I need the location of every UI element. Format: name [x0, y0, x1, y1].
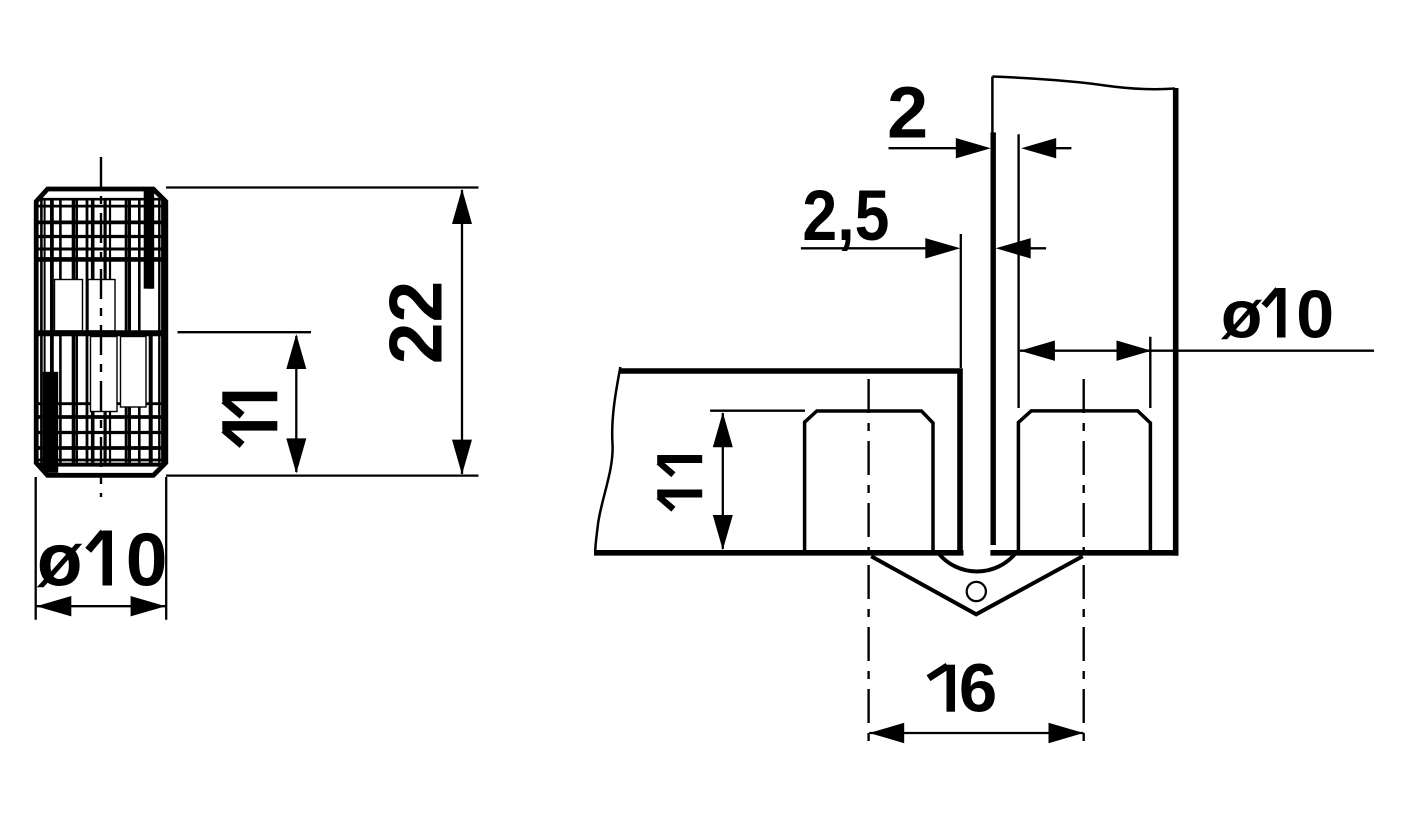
vertical panel bottom edge: [990, 550, 1178, 556]
vertical panel face line thin upper part: [991, 77, 994, 134]
sleeve inner top line: [36, 198, 166, 201]
horizontal panel top surface: [619, 368, 963, 374]
dimension line 11 left view: [286, 334, 306, 473]
extension line top for 22: [166, 186, 479, 188]
knurl horizontal lines bottom section: [39, 404, 164, 460]
hinge V plate: [871, 556, 1082, 614]
hinge pivot circle: [967, 582, 986, 601]
dimension text 2,5: [802, 176, 889, 256]
horizontal panel right edge: [957, 369, 963, 555]
extension line for 11 right view: [710, 410, 805, 412]
centerline of right hole: [1082, 379, 1084, 748]
highlight window D: [121, 337, 147, 408]
vertical panel right edge: [1173, 88, 1179, 556]
svg-text:ø: ø: [1221, 277, 1263, 353]
hole in vertical panel: [1018, 411, 1150, 550]
vertical panel top break line: [992, 77, 1175, 90]
horizontal panel bottom surface: [594, 550, 964, 556]
hinge cup arc: [939, 554, 1015, 572]
shading bar bottom left: [43, 372, 59, 473]
dimension text 11 right view: [657, 455, 702, 509]
hole in horizontal panel: [805, 411, 933, 551]
horizontal panel break line: [595, 367, 620, 551]
extension line left for dia10: [35, 477, 37, 620]
highlight window C: [91, 337, 118, 412]
svg-text:ø: ø: [37, 518, 83, 602]
highlight window A: [55, 280, 83, 332]
highlight window B: [88, 280, 115, 332]
extension line mid for 11: [178, 331, 312, 333]
dimension line 22: [452, 189, 472, 475]
dimension 2 : tail left: [889, 138, 991, 158]
dimension text 11 left view: [222, 392, 277, 445]
dimension line dia10 right view: [1020, 341, 1374, 361]
knurl horizontal lines top section: [39, 206, 164, 259]
shading bar top right: [143, 188, 155, 331]
dimension line 11 right view: [713, 412, 733, 550]
svg-text:2,5: 2,5: [802, 176, 889, 256]
svg-text:0: 0: [1296, 277, 1334, 353]
extension line right for dia10 right view: [1149, 337, 1151, 408]
sleeve mid band: [34, 330, 168, 336]
dimension text 16: [929, 650, 998, 727]
knurl vertical lines top section: [41, 201, 162, 331]
dimension 2,5 : tail right: [996, 238, 1046, 258]
extension line right for dia10: [165, 477, 167, 620]
dimension text 2: [887, 73, 928, 154]
svg-text:6: 6: [959, 650, 997, 727]
svg-text:0: 0: [126, 518, 168, 602]
sleeve centerline: [100, 157, 102, 497]
svg-text:2: 2: [887, 73, 928, 154]
dimension 2,5 : tail left: [801, 238, 960, 258]
sleeve inner bottom line: [36, 463, 166, 467]
dimension text dia10 left view: [37, 518, 168, 602]
extension line shared 2 and dia10: [1017, 134, 1019, 408]
knurl vertical lines bottom section: [41, 336, 162, 463]
dimension line dia10 left view: [36, 596, 165, 616]
centerline of left hole: [867, 379, 869, 748]
dimension text dia10 right view: [1221, 277, 1334, 353]
svg-text:22: 22: [374, 281, 458, 364]
sleeve body outline: [36, 189, 166, 475]
extension line for 2,5: [960, 234, 962, 368]
vertical panel face line: [991, 132, 996, 545]
dimension text 22: [374, 281, 458, 364]
dimension line 16: [869, 723, 1083, 743]
extension line bottom for 22: [166, 474, 479, 476]
dimension 2 : tail right: [1021, 138, 1071, 158]
